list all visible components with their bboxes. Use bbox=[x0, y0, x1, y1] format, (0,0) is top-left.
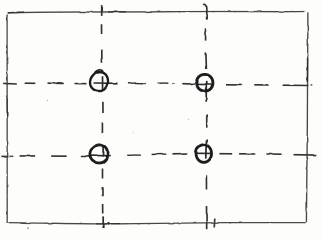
horizontal centerline H2 dash 3 bbox=[20, 155, 36, 157]
paper speck bbox=[27, 227, 29, 229]
vertical centerline V1 dash 5 bbox=[102, 102, 104, 113]
plate outline top edge bbox=[8, 11, 305, 12]
plate outline right edge bbox=[306, 12, 308, 222]
vertical centerline V1 dash 8 bbox=[102, 169, 104, 179]
vertical centerline V2 dash 2 bbox=[205, 28, 207, 41]
horizontal centerline H2 dash 7 bbox=[127, 154, 141, 156]
top edge darker patch bbox=[108, 11, 126, 13]
plate outline left edge bbox=[6, 15, 8, 224]
top edge darker patch left end bbox=[8, 11, 24, 14]
vertical centerline V1 dash inside hole C3 bbox=[102, 147, 104, 157]
horizontal centerline H1 dash 11 bbox=[226, 84, 242, 86]
horizontal centerline H2 dash 2 (short) bbox=[10, 155, 14, 157]
horizontal centerline H1 dash 4 bbox=[74, 83, 87, 85]
hole C4 (bottom-right circle) bbox=[196, 145, 212, 163]
horizontal centerline H1 dot beyond right edge bbox=[311, 84, 313, 86]
horizontal centerline H1 dash 3 bbox=[48, 82, 64, 84]
vertical centerline V2 dash 7 bbox=[205, 175, 207, 189]
horizontal centerline H2 dash 13 bbox=[266, 153, 282, 155]
right edge darker patch bbox=[306, 58, 308, 82]
horizontal centerline H2 dash 5 bbox=[81, 155, 89, 157]
horizontal centerline H2 dash 1 (crosses left edge) bbox=[1, 155, 8, 157]
hole C3 (bottom-left circle) bbox=[90, 145, 108, 163]
horizontal centerline H1 dash through hole C1 bbox=[94, 82, 118, 84]
vertical centerline V2 dash through hole C4 top bbox=[205, 139, 208, 158]
vertical centerline V2 dash 8 (long, crosses bottom edge) bbox=[206, 206, 208, 229]
vertical centerline V1 dash 6 bbox=[101, 122, 103, 133]
vertical centerline V1 dash 10 bbox=[102, 204, 104, 214]
horizontal centerline H1 dash 7 bbox=[158, 82, 169, 84]
vertical centerline V1 dash inside hole C1 bbox=[102, 76, 104, 91]
vertical centerline V2 dash 1 with hook (above top edge) bbox=[204, 4, 207, 19]
horizontal centerline H2 dash 4 bbox=[51, 155, 66, 157]
horizontal centerline H2 dash through hole C4 bbox=[196, 152, 213, 154]
paper speck bbox=[47, 100, 48, 101]
vertical centerline V1 dash 9 bbox=[101, 187, 103, 196]
horizontal centerline H1 dash through hole C2 bbox=[198, 83, 213, 85]
hole C2 (top-right circle) bbox=[196, 74, 212, 91]
bottom edge darker patch bbox=[96, 223, 120, 225]
hole C1 pen-overlap knot at top bbox=[95, 70, 103, 73]
horizontal centerline H1 dash 9 bbox=[182, 83, 195, 85]
horizontal centerline H1 dash 2 bbox=[25, 82, 36, 84]
horizontal centerline H2 dash 14 (crosses right edge) bbox=[294, 154, 317, 156]
horizontal centerline H2 dash 9 bbox=[173, 153, 188, 155]
vertical centerline V1 dash 1 (crosses top edge) bbox=[101, 6, 103, 16]
vertical centerline V2 dash through hole C2 bottom bbox=[205, 81, 207, 101]
horizontal centerline H2 dash 8 bbox=[152, 153, 167, 155]
vertical centerline V2 dash 5 bbox=[206, 114, 208, 127]
horizontal centerline H2 dash 12 bbox=[239, 153, 255, 155]
paper speck bbox=[188, 119, 189, 120]
horizontal centerline H1 faint mark bbox=[172, 83, 175, 85]
vertical centerline V1 dash 11 (crosses bottom edge) bbox=[102, 216, 104, 228]
left edge darker patch bbox=[6, 98, 8, 116]
horizontal centerline H1 dash 12 bbox=[254, 84, 268, 86]
vertical centerline V1 dash 2 bbox=[101, 25, 103, 34]
horizontal centerline H2 dash through hole C3 bbox=[90, 155, 111, 157]
plate outline bottom edge bbox=[9, 223, 307, 224]
horizontal centerline H1 dash 13 (crosses right edge) bbox=[283, 84, 309, 86]
hole C3 pen-overlap knot at top bbox=[94, 144, 104, 147]
vertical centerline V2 dash 3 bbox=[205, 53, 208, 69]
hole C1 (top-left circle) bbox=[90, 72, 108, 91]
stray tick right of V1 bottom crossing bbox=[107, 222, 109, 225]
horizontal centerline H1 dash 6 bbox=[128, 82, 146, 84]
stray tick right of V2 bottom crossing bbox=[213, 219, 216, 228]
horizontal centerline H1 dash 1 (crosses left edge) bbox=[4, 82, 17, 85]
vertical centerline V1 dash 3 bbox=[101, 49, 103, 62]
horizontal centerline H2 dash 11 bbox=[219, 153, 232, 155]
paper speck bbox=[133, 132, 134, 133]
